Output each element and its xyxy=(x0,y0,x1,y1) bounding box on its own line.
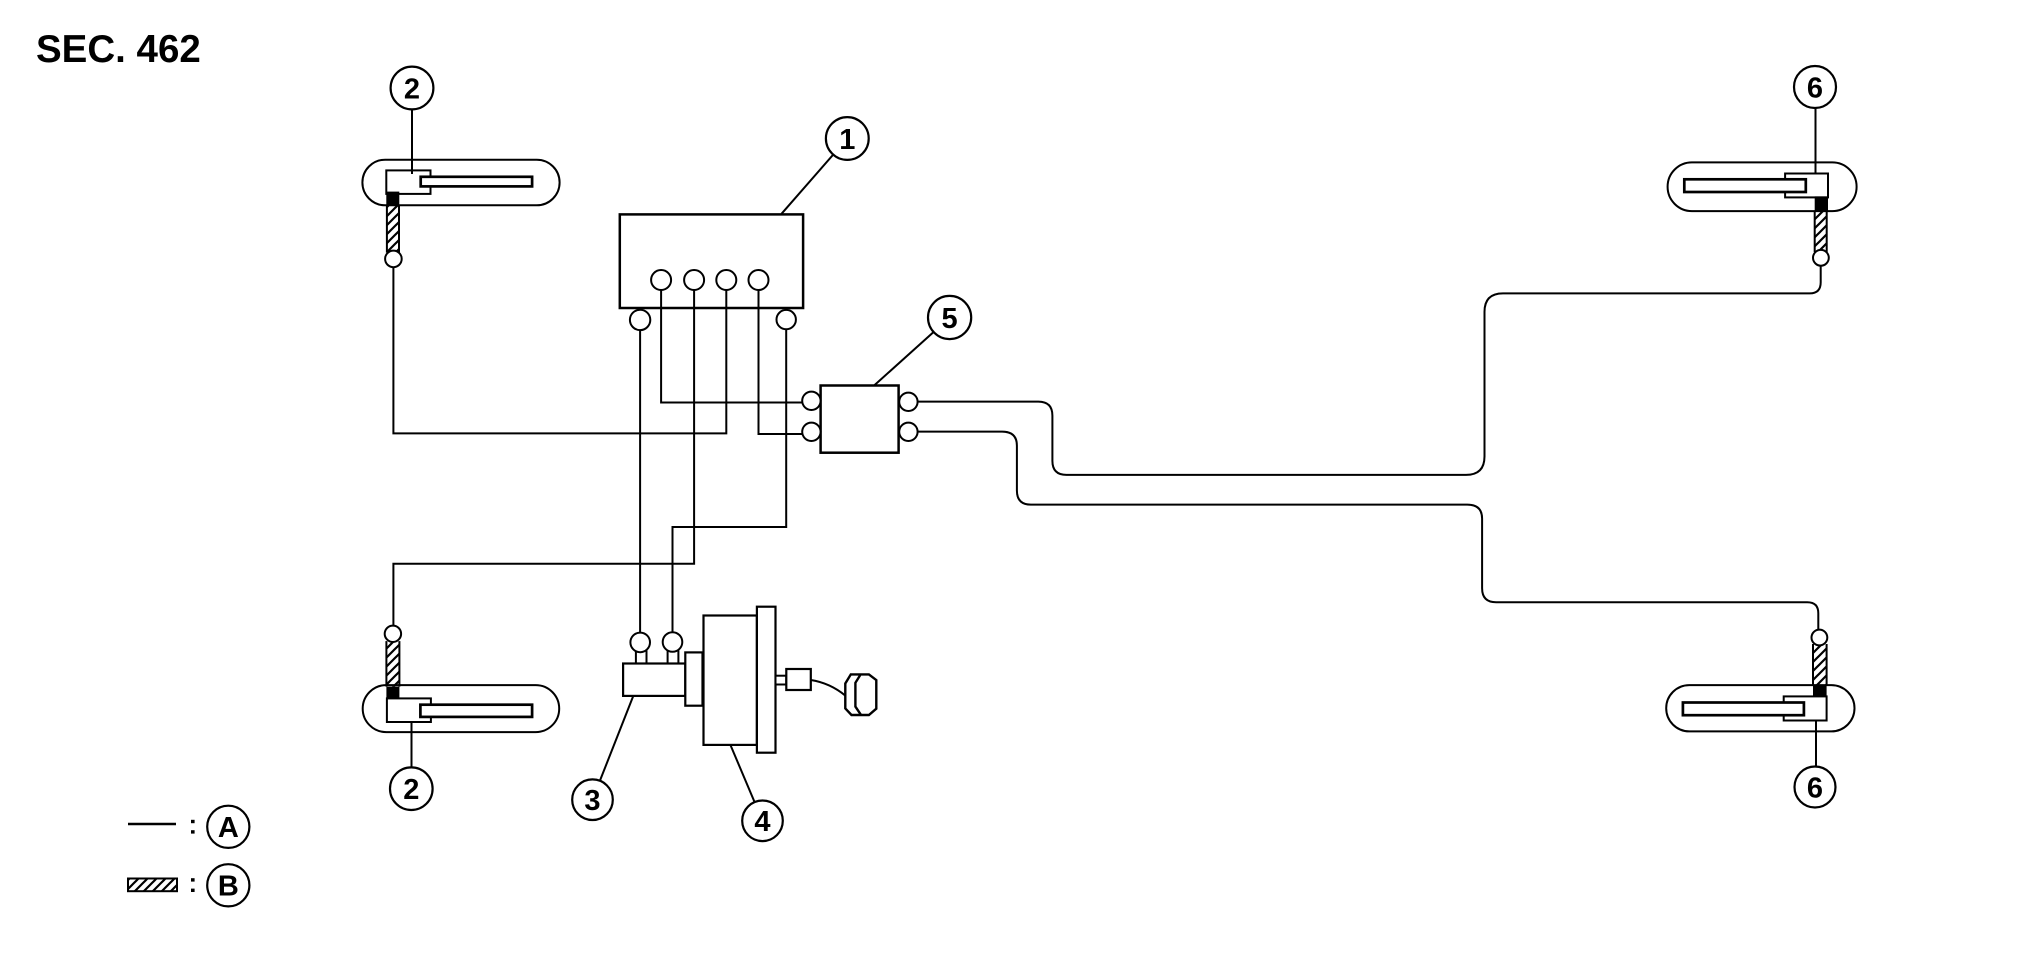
callout 2 (front-left) xyxy=(391,67,434,174)
svg-text:3: 3 xyxy=(584,785,600,817)
svg-text:2: 2 xyxy=(403,774,419,806)
master cylinder 3 xyxy=(623,632,702,706)
front-left wheel cylinder assembly xyxy=(362,160,559,267)
svg-text:4: 4 xyxy=(754,806,770,838)
rear-left wheel cylinder assembly xyxy=(363,626,560,733)
svg-text:6: 6 xyxy=(1807,72,1823,104)
svg-text:A: A xyxy=(218,812,239,844)
wire brake tube: junction bottom-right port to rear-right hose xyxy=(913,432,1818,631)
callout 4 (booster) xyxy=(730,745,782,841)
wire brake tube: actuator pin4 to junction bottom-left port xyxy=(759,288,807,434)
callout 5 (junction) xyxy=(874,296,971,386)
callout 2 (rear-left) xyxy=(390,722,433,810)
brake booster 4 with pedal xyxy=(704,607,877,753)
svg-text:B: B xyxy=(218,871,239,903)
rear-right wheel cylinder assembly xyxy=(1666,630,1854,732)
legend hose B xyxy=(128,864,249,906)
callout 6 (front-right) xyxy=(1794,66,1836,174)
callout 3 (master cylinder) xyxy=(572,696,633,820)
wire brake tube: actuator pin2 to rear-left hose xyxy=(393,288,694,627)
callout 6 (rear-right) xyxy=(1795,721,1836,808)
front-right wheel cylinder assembly xyxy=(1668,162,1857,265)
wire brake tube: junction top-right port to front-right hose xyxy=(913,267,1821,475)
wire brake tube: actuator pin1 to junction top-left port xyxy=(661,288,806,403)
svg-text:6: 6 xyxy=(1807,772,1823,804)
wire brake tube: actuator left outlet to master cylinder left port xyxy=(639,328,641,633)
ABS actuator unit 1 xyxy=(620,214,803,330)
svg-text:SEC. 462: SEC. 462 xyxy=(36,28,201,71)
junction connector 5 xyxy=(802,386,917,453)
wire brake tube: actuator pin3 to front-left hose xyxy=(393,266,726,433)
svg-text:5: 5 xyxy=(942,303,958,335)
svg-text:1: 1 xyxy=(839,124,855,156)
svg-text:2: 2 xyxy=(404,73,420,105)
legend line A xyxy=(128,806,249,848)
callout 1 (actuator) xyxy=(782,117,869,214)
wire brake tube: actuator right outlet to master cylinder right port xyxy=(673,328,787,634)
